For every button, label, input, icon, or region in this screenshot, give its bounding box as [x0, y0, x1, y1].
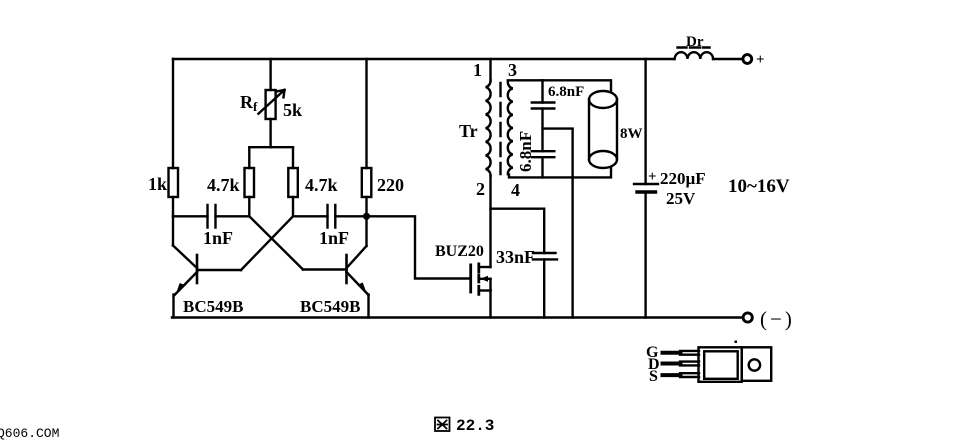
wire Q1 collector vertical — [172, 216, 174, 245]
svg-text:5k: 5k — [283, 100, 302, 120]
wire C1 to node A — [216, 215, 250, 217]
svg-text:8W: 8W — [620, 126, 643, 142]
wire cap mid — [541, 109, 543, 152]
lamp 8W tube top ellipse — [589, 91, 617, 108]
mosfet channel segments — [477, 264, 480, 294]
wire Rf split horizontal — [249, 146, 293, 148]
transistor Q2 base lead — [303, 268, 347, 270]
svg-text:2: 2 — [476, 179, 485, 199]
wire mosfet body-source tie — [489, 279, 491, 291]
svg-text:BC549B: BC549B — [183, 297, 243, 316]
wire node B to C2 — [293, 215, 328, 217]
TO-220 package lead G — [663, 351, 681, 355]
TO-220 body outer — [699, 347, 742, 382]
potentiometer Rf arrow — [258, 90, 284, 114]
svg-text:1k: 1k — [148, 174, 167, 194]
transistor Q1 collector — [173, 246, 197, 269]
svg-text:25V: 25V — [666, 189, 696, 208]
svg-text:10~16V: 10~16V — [728, 176, 790, 197]
mosfet drain lead — [479, 266, 491, 268]
terminal + (positive output) — [743, 55, 752, 64]
wire Q1 emitter vertical — [172, 295, 174, 318]
wire 4.7k right top — [292, 147, 294, 168]
svg-text:+: + — [756, 52, 765, 68]
svg-text:Tr: Tr — [459, 121, 478, 141]
lamp tube sides — [589, 100, 617, 160]
TO-220 mounting hole — [749, 359, 760, 370]
resistor 1k — [169, 168, 179, 197]
svg-text:(−): (−) — [760, 307, 795, 331]
wire cross coupling A to Q2 base — [249, 216, 303, 269]
wire mosfet source to rail — [489, 291, 491, 318]
scan speck above package — [735, 341, 738, 344]
svg-text:220µF: 220µF — [660, 169, 706, 188]
svg-text:Q606.COM: Q606.COM — [0, 426, 59, 441]
Dr core dashed line — [678, 46, 710, 48]
svg-text:1: 1 — [473, 60, 482, 80]
inductor Dr — [675, 52, 713, 59]
wire Q2 collector vertical — [365, 216, 367, 246]
svg-text:6.8nF: 6.8nF — [548, 84, 584, 100]
wire Rf bottom — [269, 119, 271, 147]
wire 220 branch top — [365, 59, 367, 168]
caption box glyph (CJK tu) — [435, 418, 450, 432]
wire Rf branch top — [269, 59, 271, 90]
wire secondary bottom — [509, 168, 611, 177]
resistor 4.7k left — [245, 168, 255, 197]
transistor Q2 emitter with arrow — [347, 272, 369, 295]
svg-text:1nF: 1nF — [203, 228, 233, 248]
TO-220 tab — [742, 347, 772, 381]
wire bottom rail — [172, 316, 743, 318]
mosfet body lead with arrow — [479, 278, 491, 280]
wire coupling row left — [173, 215, 208, 217]
transistor Q2 BC549B base bar — [345, 255, 348, 283]
wire 4.7k right bottom — [292, 197, 294, 216]
capacitor 6.8nF top branch wire — [541, 80, 543, 102]
wire top rail left segment — [173, 58, 674, 60]
wire mosfet drain vertical — [489, 176, 491, 267]
wire 33nF bottom — [543, 259, 545, 317]
svg-text:220: 220 — [377, 175, 404, 195]
lamp tube bottom ellipse — [589, 151, 617, 168]
capacitor 33nF — [533, 253, 557, 259]
capacitor 6.8nF top — [532, 103, 555, 109]
wire 220uF bottom — [644, 192, 646, 318]
wire primary pin1 — [489, 59, 491, 80]
wire C2 to junction — [335, 215, 366, 217]
transistor Q2 collector — [347, 246, 367, 268]
wire 220 bottom — [365, 197, 367, 216]
capacitor C2 1nF — [328, 205, 336, 228]
svg-text:6.8nF: 6.8nF — [516, 131, 535, 172]
TO-220 body inner — [704, 351, 738, 379]
transformer Tr primary winding — [486, 80, 491, 176]
wire right vertical top — [644, 59, 646, 184]
mosfet source lead — [479, 289, 491, 291]
svg-text:Dr: Dr — [686, 34, 704, 50]
capacitor C1 1nF — [208, 205, 216, 228]
wire Q2 emitter vertical — [367, 295, 369, 318]
mosfet BUZ20 gate bar — [469, 265, 472, 292]
svg-text:+: + — [648, 169, 657, 185]
svg-text:BC549B: BC549B — [300, 297, 360, 316]
wire mid node tap — [543, 129, 573, 318]
wire secondary top — [508, 80, 611, 91]
wire 4.7k left top — [248, 147, 250, 168]
TO-220 package lead S — [663, 373, 681, 377]
wire cap bottom — [541, 157, 543, 177]
svg-text:4.7k: 4.7k — [305, 175, 338, 195]
wire top rail right segment — [713, 58, 743, 60]
transistor Q1 base lead — [197, 269, 241, 271]
wire 1k branch top — [172, 59, 174, 168]
svg-text:S: S — [649, 368, 658, 385]
transistor Q1 emitter with arrow — [175, 272, 198, 295]
svg-text:33nF: 33nF — [496, 247, 535, 267]
resistor 4.7k right — [288, 168, 298, 197]
transformer core dashed — [499, 83, 501, 174]
transformer Tr secondary winding — [508, 82, 513, 174]
wire 1k bottom — [172, 197, 174, 216]
wire drain to 33nF branch — [491, 209, 545, 253]
svg-text:4: 4 — [511, 180, 520, 200]
svg-text:22.3: 22.3 — [456, 417, 494, 435]
wire junction to gate corner — [367, 216, 471, 278]
capacitor 220uF electrolytic — [634, 183, 658, 185]
wire cross coupling B to Q1 base — [241, 216, 293, 270]
svg-text:4.7k: 4.7k — [207, 175, 240, 195]
svg-text:Rf: Rf — [240, 92, 258, 114]
svg-text:1nF: 1nF — [319, 228, 349, 248]
terminal - (negative output) — [743, 313, 752, 322]
TO-220 package lead D — [663, 362, 681, 366]
potentiometer Rf 5k body — [266, 90, 276, 119]
wire 4.7k left bottom — [248, 197, 250, 216]
capacitor 6.8nF bottom — [532, 151, 555, 157]
svg-text:3: 3 — [508, 60, 517, 80]
junction dot — [363, 213, 370, 220]
svg-text:BUZ20: BUZ20 — [435, 243, 484, 260]
transistor Q1 BC549B base bar — [196, 255, 199, 283]
resistor 220 — [362, 168, 372, 197]
